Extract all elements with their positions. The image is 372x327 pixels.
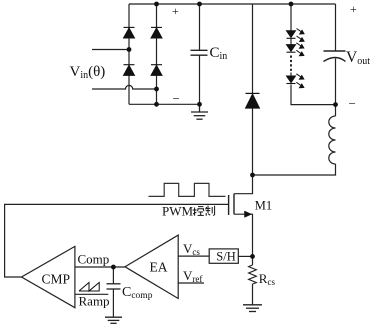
svg-text:Comp: Comp (78, 252, 110, 267)
svg-text:Rcs: Rcs (259, 271, 276, 287)
wire source (234, 214, 253, 256)
svg-text:+: + (172, 4, 179, 18)
wire Comp (75, 266, 125, 268)
wire S/H right (238, 255, 252, 257)
wire CMP output loop to gate (5, 204, 229, 277)
LED1 light arrows (297, 29, 305, 42)
wire Vcs (178, 255, 209, 257)
block S/H (209, 249, 238, 263)
diode bridge D3 lower-left (124, 65, 135, 76)
svg-text:Cin: Cin (210, 45, 228, 62)
comparator CMP (22, 246, 75, 307)
wire inductor bottom link (253, 164, 336, 175)
capacitor Cin (191, 50, 208, 55)
svg-text:−: − (349, 96, 356, 111)
wire Vref stub (178, 282, 204, 284)
wire Ccomp branch (112, 267, 114, 284)
wire Rcs top (252, 256, 254, 265)
svg-text:Vref: Vref (183, 268, 202, 284)
svg-text:Ccomp: Ccomp (122, 285, 153, 301)
wire bottom rail (129, 103, 200, 105)
svg-text:Vcs: Vcs (183, 241, 200, 257)
svg-text:Vin(θ): Vin(θ) (70, 64, 106, 81)
wire AC input upper (92, 49, 129, 51)
ramp waveform icon (79, 283, 99, 292)
wire drain (234, 175, 253, 194)
op-amp EA (125, 235, 178, 298)
label zhi (CJK control char 2) (205, 206, 214, 216)
svg-text:S/H: S/H (216, 250, 235, 264)
LED string: LED1 (287, 31, 296, 39)
wire bridge left column (128, 4, 130, 104)
wire AC input lower with hop (92, 85, 157, 89)
capacitor Ccomp (107, 284, 121, 289)
resistor Rcs (249, 265, 257, 284)
diode bridge D1 upper-left (124, 27, 135, 38)
inductor L (329, 116, 336, 164)
wire LED branch top (290, 4, 292, 31)
diode bridge D4 lower-right (151, 65, 162, 76)
svg-text:−: − (173, 91, 180, 106)
wire LED branch bottom + return (291, 85, 336, 105)
wire bridge right column (156, 4, 158, 104)
capacitor Cout (polarized) (324, 51, 346, 62)
svg-text:Vout: Vout (346, 49, 370, 67)
LED3 light arrows (296, 74, 304, 88)
ground under Rcs (243, 305, 262, 312)
ground under Ccomp (105, 317, 122, 323)
M1 source arrow (245, 211, 252, 217)
label kong (CJK control char 1) (193, 207, 204, 216)
wire Vout branch (335, 4, 337, 51)
diode D freewheel (246, 93, 260, 108)
wire LED1-LED2 (290, 38, 292, 44)
svg-text:+: + (350, 2, 357, 16)
PWM waveform (149, 183, 226, 196)
svg-text:PWM: PWM (162, 204, 194, 219)
wire Rcs bottom (252, 284, 254, 305)
ground under Cin (191, 104, 208, 119)
svg-text:M1: M1 (255, 199, 272, 213)
dotted wire (more LEDs) (290, 56, 292, 73)
svg-text:Ramp: Ramp (79, 294, 110, 309)
diode bridge D2 upper-right (151, 27, 162, 38)
LED string: LED2 (287, 45, 296, 53)
wire top rail (129, 3, 336, 5)
LED string: LED3 (287, 76, 296, 84)
transistor M1 (229, 194, 234, 215)
wire Ramp stub (75, 293, 108, 295)
wire freewheel diode branch (252, 4, 254, 175)
wire dotted-LED3 (290, 73, 292, 76)
svg-text:EA: EA (150, 260, 168, 275)
svg-text:CMP: CMP (42, 272, 71, 287)
wire Cin branch (199, 4, 201, 50)
LED2 light arrows (296, 43, 304, 56)
